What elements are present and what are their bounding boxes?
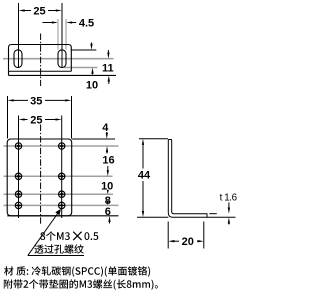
svg-text:4.5: 4.5 (79, 18, 94, 30)
svg-text:4: 4 (102, 122, 109, 134)
svg-text:35: 35 (30, 95, 42, 107)
svg-text:t 1.6: t 1.6 (220, 193, 238, 204)
svg-text:11: 11 (102, 62, 114, 74)
svg-text:25: 25 (33, 5, 45, 17)
svg-text:44: 44 (138, 169, 151, 181)
svg-text:6: 6 (105, 206, 111, 218)
svg-text:16: 16 (102, 154, 114, 166)
svg-text:20: 20 (182, 236, 194, 248)
svg-text:10: 10 (86, 80, 98, 92)
